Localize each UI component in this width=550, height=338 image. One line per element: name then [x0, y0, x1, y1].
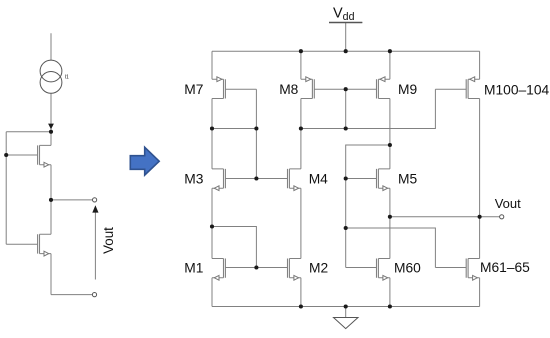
svg-text:M5: M5	[398, 172, 417, 187]
svg-text:M61–65: M61–65	[480, 260, 530, 275]
svg-text:I1: I1	[65, 74, 69, 80]
svg-text:M4: M4	[309, 172, 328, 187]
svg-text:Vout: Vout	[495, 196, 521, 211]
svg-text:M3: M3	[184, 172, 203, 187]
svg-text:M9: M9	[398, 82, 417, 97]
svg-text:M7: M7	[184, 82, 203, 97]
svg-text:M100–104: M100–104	[484, 83, 550, 98]
svg-text:M2: M2	[309, 261, 328, 276]
svg-text:M60: M60	[394, 261, 421, 276]
svg-text:M8: M8	[279, 82, 298, 97]
svg-text:M1: M1	[184, 261, 203, 276]
svg-text:Vout: Vout	[101, 227, 116, 254]
